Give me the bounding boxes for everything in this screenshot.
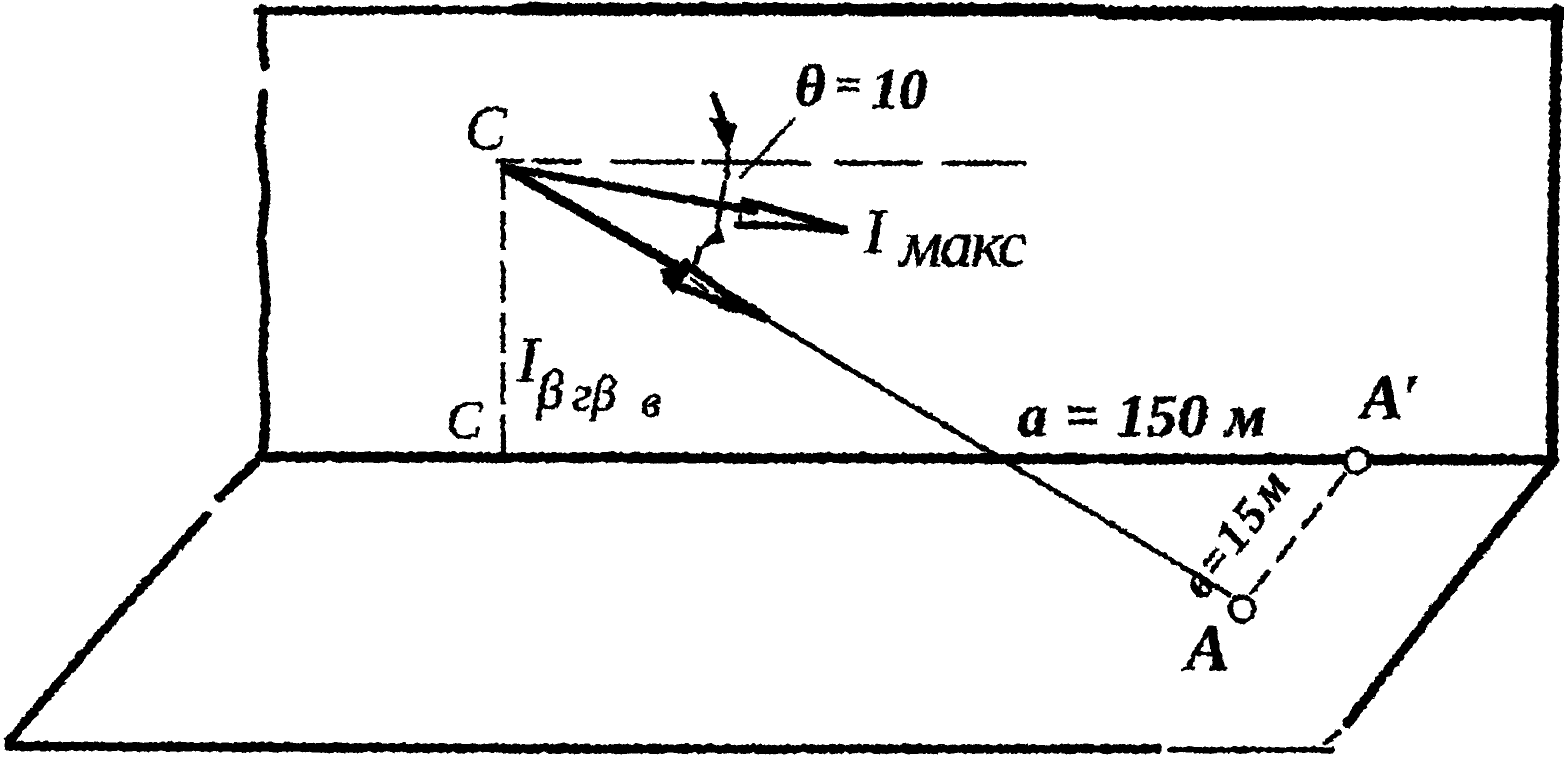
svg-text:A′: A′ — [1356, 363, 1419, 431]
thin line from arrowhead to A — [755, 312, 1229, 594]
svg-text:=: = — [834, 58, 860, 109]
I max arrow shaft — [508, 167, 753, 210]
svg-text:макс: макс — [897, 207, 1025, 280]
wall bottom edge (wall-floor fold) — [259, 456, 1553, 459]
svg-text:A: A — [1181, 611, 1229, 684]
trajectory small arrowhead — [700, 226, 722, 247]
lower arrowhead — [684, 262, 763, 315]
horizontal dashed line from C — [497, 160, 1024, 162]
lower thick arrow shaft (toward A) — [509, 170, 676, 266]
svg-text:a = 150 м: a = 150 м — [1017, 382, 1266, 448]
trajectory dashed path — [716, 152, 727, 226]
floor bottom edge — [8, 745, 1157, 748]
trajectory top arrowhead — [710, 117, 735, 151]
circle A' — [1344, 448, 1368, 472]
svg-text:10: 10 — [870, 58, 926, 120]
svg-text:гβ: гβ — [571, 364, 616, 420]
circle A — [1229, 596, 1253, 620]
trajectory lower dashes — [678, 248, 699, 280]
I max arrowhead — [743, 200, 843, 229]
svg-text:C: C — [445, 389, 482, 449]
svg-text:в: в — [640, 374, 660, 425]
floor left edge — [8, 460, 256, 740]
theta leader line — [740, 118, 793, 176]
trajectory top arrow shaft — [713, 94, 722, 120]
vertical dashed line C-c — [500, 161, 505, 450]
floor bottom-right short dash — [1324, 731, 1338, 742]
floor right edge — [1347, 463, 1550, 722]
svg-text:β: β — [535, 359, 563, 419]
dashed line A to A' — [1251, 473, 1344, 592]
svg-text:в=15м: в=15м — [1169, 456, 1302, 607]
wall top edge — [257, 9, 520, 10]
svg-text:I: I — [862, 195, 887, 266]
svg-text:θ: θ — [794, 52, 824, 117]
wall left edge — [259, 8, 265, 452]
wall right edge — [1551, 9, 1556, 458]
svg-text:C: C — [464, 94, 506, 162]
